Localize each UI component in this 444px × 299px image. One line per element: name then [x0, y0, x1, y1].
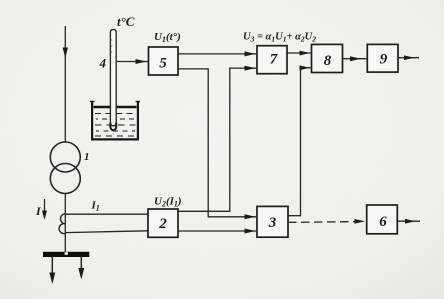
svg-text:8: 8 [324, 53, 332, 69]
svg-text:U3 = α1U1+ α2U2: U3 = α1U1+ α2U2 [243, 32, 316, 44]
svg-text:7: 7 [270, 52, 278, 68]
svg-text:4: 4 [99, 56, 107, 71]
svg-text:6: 6 [379, 214, 387, 230]
svg-text:U2(I1): U2(I1) [154, 196, 182, 209]
svg-text:U1(t°): U1(t°) [154, 31, 181, 44]
svg-text:9: 9 [380, 52, 388, 68]
svg-text:2: 2 [158, 216, 167, 232]
svg-text:3: 3 [268, 215, 277, 231]
svg-text:t°C: t°C [117, 14, 135, 29]
svg-text:5: 5 [159, 56, 167, 72]
svg-text:1: 1 [84, 151, 90, 163]
